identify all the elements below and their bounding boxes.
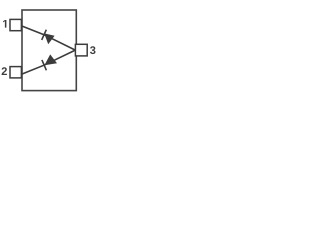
diode D1 triangle: [44, 33, 54, 44]
diode D2 triangle: [44, 54, 57, 65]
pin 3 pad: [75, 44, 87, 56]
pin 2 pad: [10, 67, 21, 78]
diode D2 cathode bar: [42, 60, 47, 70]
pin 1 pad: [10, 19, 21, 30]
pin 3 label: [90, 46, 95, 54]
package outline box: [22, 10, 76, 91]
diode D1 cathode bar: [42, 30, 47, 40]
pin 1 label: [3, 20, 6, 28]
wire: pad1 to junction: [22, 26, 76, 50]
wire: pad2 to junction: [22, 50, 76, 74]
pin 2 label: [2, 67, 7, 75]
